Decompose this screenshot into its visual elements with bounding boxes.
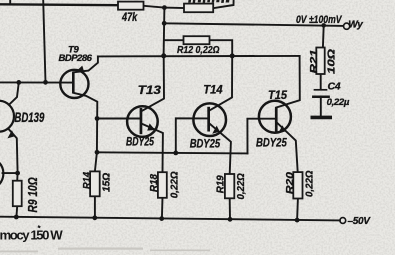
svg-text:R14: R14 <box>82 172 93 189</box>
svg-text:10Ω: 10Ω <box>326 49 337 74</box>
svg-text:0,22µ: 0,22µ <box>327 97 350 108</box>
svg-text:BDY25: BDY25 <box>190 138 221 151</box>
svg-text:T13: T13 <box>138 85 162 97</box>
svg-text:Wy: Wy <box>348 19 363 30</box>
svg-text:R21: R21 <box>309 49 320 74</box>
svg-text:R18: R18 <box>149 174 160 192</box>
svg-text:0V ±100mV: 0V ±100mV <box>296 14 343 26</box>
svg-text:BDP286: BDP286 <box>59 53 93 64</box>
svg-text:R20: R20 <box>285 172 296 195</box>
svg-text:BDY25: BDY25 <box>256 137 287 150</box>
svg-text:R9 10Ω: R9 10Ω <box>25 177 40 212</box>
svg-text:0,22Ω: 0,22Ω <box>236 173 247 199</box>
svg-text:R19: R19 <box>216 175 227 193</box>
svg-text:15Ω: 15Ω <box>101 173 112 192</box>
svg-text:T15: T15 <box>268 90 288 102</box>
svg-text:T14: T14 <box>203 85 223 97</box>
svg-text:47k: 47k <box>121 10 138 24</box>
svg-text:BD139: BD139 <box>14 110 44 125</box>
svg-text:BDY25: BDY25 <box>126 136 154 149</box>
svg-text:0,22Ω: 0,22Ω <box>304 170 315 197</box>
svg-text:–50V: –50V <box>348 216 372 227</box>
svg-text:0,22Ω: 0,22Ω <box>169 171 180 198</box>
svg-text:mocy 150 W: mocy 150 W <box>0 228 63 243</box>
svg-text:R12 0,22Ω: R12 0,22Ω <box>177 45 220 56</box>
svg-text:C4: C4 <box>328 81 341 93</box>
